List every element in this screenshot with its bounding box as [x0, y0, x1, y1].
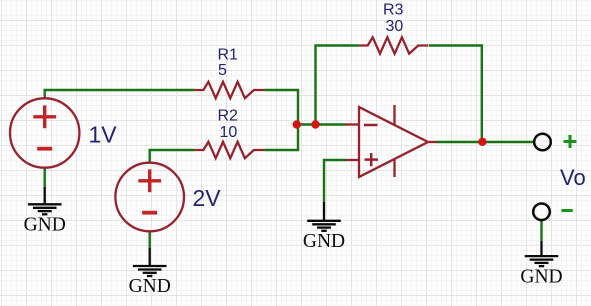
wire feedback tap up to R3	[316, 46, 359, 125]
ground GND (V1)	[28, 187, 62, 214]
pin: negative supply stub	[393, 160, 395, 177]
V2 plus mark	[138, 169, 161, 192]
V1 plus mark	[33, 105, 56, 128]
resistor R2	[194, 142, 264, 158]
svg-text:GND: GND	[303, 231, 345, 252]
junction at output node	[478, 138, 486, 146]
ground GND (op-amp plus input)	[307, 202, 341, 231]
pin: non-inverting input stub	[345, 159, 359, 161]
svg-text:R1: R1	[218, 47, 239, 64]
ground GND (Vo return)	[525, 241, 559, 266]
svg-text:GND: GND	[520, 267, 562, 288]
plus polarity mark (green)	[564, 135, 577, 148]
V1 minus mark	[37, 147, 52, 151]
svg-text:10: 10	[220, 124, 238, 141]
resistor R3	[359, 37, 429, 53]
wire inverting node to op-amp minus input	[297, 123, 346, 125]
svg-text:GND: GND	[24, 215, 66, 236]
wire op-amp plus input to ground	[324, 160, 346, 202]
terminal - (Vo return)	[533, 204, 550, 221]
wire op-amp output to plus terminal	[437, 141, 535, 143]
svg-text:R2: R2	[218, 108, 239, 125]
minus polarity mark (green)	[561, 209, 572, 212]
voltage source V1 1V	[10, 98, 79, 167]
svg-text:2V: 2V	[193, 185, 222, 211]
ground GND (V2)	[133, 248, 167, 276]
pin: output stub	[428, 141, 437, 143]
wire R1 to inverting node	[264, 90, 298, 125]
svg-text:5: 5	[218, 62, 227, 79]
op-amp plus sign	[365, 158, 379, 161]
pin: positive supply stub	[393, 105, 395, 125]
svg-text:GND: GND	[129, 276, 171, 297]
terminal + (Vo)	[534, 134, 551, 151]
wire V1 top to R1	[45, 90, 195, 98]
wire R3 to output node	[429, 46, 482, 142]
wire minus terminal to ground	[540, 220, 542, 241]
wire R2 to inverting node	[264, 125, 298, 151]
op-amp U1	[345, 105, 437, 177]
resistor R1	[194, 82, 264, 98]
wire V2 bottom to ground	[148, 231, 150, 248]
junction at inverting node	[293, 120, 301, 128]
svg-text:Vo: Vo	[560, 165, 586, 190]
voltage source V2 2V	[115, 163, 184, 232]
wire V1 bottom to ground	[44, 168, 46, 187]
svg-text:30: 30	[386, 18, 404, 35]
pin: inverting input stub	[345, 123, 359, 125]
op-amp minus sign	[364, 124, 378, 127]
V2 minus mark	[142, 211, 157, 215]
svg-text:1V: 1V	[89, 122, 118, 148]
junction at feedback tap	[311, 120, 319, 128]
wire V2 top to R2	[150, 150, 195, 163]
svg-text:R3: R3	[383, 2, 404, 19]
